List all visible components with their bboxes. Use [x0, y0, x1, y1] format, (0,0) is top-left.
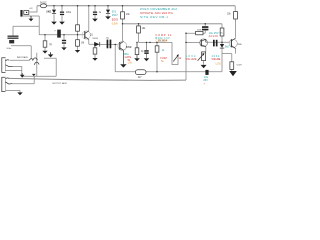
wire bottom long output line — [9, 78, 186, 80]
value labels colored — [112, 11, 230, 86]
input jack J1 body — [2, 58, 6, 73]
svg-text:5k6: 5k6 — [225, 46, 230, 49]
wire y24 — [123, 23, 223, 25]
diode D4 x222 — [220, 44, 224, 48]
junction dots — [44, 5, 222, 72]
ground y58 arrow — [48, 54, 54, 57]
svg-text:9V DC: 9V DC — [40, 3, 47, 5]
resistor R6 x138 — [137, 26, 141, 33]
svg-text:1N914: 1N914 — [92, 38, 98, 40]
pot VR1 volume — [198, 52, 206, 61]
wire output jack ring — [12, 76, 34, 84]
wire Q3 base — [186, 41, 200, 43]
transistor Q2 — [118, 42, 127, 65]
svg-text:1N4001: 1N4001 — [46, 12, 52, 14]
wire Q1 emitter drop — [88, 39, 90, 44]
capacitor C7 x205 — [202, 26, 208, 30]
wire DC jack plus — [30, 6, 38, 12]
svg-text:VOLUME: VOLUME — [211, 58, 220, 61]
ground x146 cap — [144, 58, 150, 61]
capacitor C13 x13 series — [8, 36, 19, 38]
wire Q1 collector riser — [88, 6, 90, 31]
wire Q3 emitter to pot — [205, 47, 207, 53]
wire DC jack minus — [23, 15, 39, 17]
resistor R8 oval on y72 — [135, 70, 146, 75]
resistor R7 x157 — [155, 46, 159, 52]
wire stubs x205 cap — [204, 24, 206, 33]
resistor R10 horizontal y33 — [196, 31, 203, 34]
wire Q4 collector riser — [235, 19, 237, 38]
wire y76 — [22, 58, 56, 76]
capacitor C3 x62 rail — [60, 12, 64, 16]
ground x62 — [59, 22, 65, 25]
resistor R3 x77 lower — [76, 40, 80, 47]
wire stubs x45 — [44, 35, 46, 51]
wire stubs x54 diode — [53, 6, 55, 22]
wire pot bottom — [203, 61, 205, 65]
wire switch vertical — [36, 53, 38, 77]
wire vertical x31 — [30, 46, 32, 59]
diode D3 series y44 — [94, 42, 100, 47]
ground x64 — [61, 47, 66, 50]
wire vertical x186 — [185, 33, 187, 80]
wire output jack sleeve — [6, 90, 21, 92]
ground x108 zener — [105, 16, 111, 19]
ground pot volume — [201, 65, 207, 68]
wire stab pot loop — [172, 42, 178, 64]
wire top +9V rail — [37, 5, 235, 7]
svg-text:INPUT JACK: INPUT JACK — [17, 56, 29, 59]
capacitor C8 x214 series — [213, 40, 218, 47]
wire y26 — [13, 25, 39, 27]
ground output sleeve — [17, 92, 22, 95]
wire y72 bottom bus — [115, 71, 222, 73]
wire vertical x122 collector chain — [122, 6, 125, 42]
wire Q3 collector bus — [206, 41, 229, 43]
DC jack J3 — [20, 10, 28, 17]
capacitor C6 x146 to ground — [144, 42, 148, 58]
wire input jack sleeve — [6, 71, 22, 77]
wire y58 — [44, 57, 56, 59]
svg-text:7R: 7R — [49, 45, 52, 47]
ground symbols — [17, 16, 237, 95]
wire stubs x138 feed resistor — [138, 24, 140, 43]
wire stubs x64 — [63, 35, 65, 48]
capacitor C2 x64 — [62, 40, 66, 44]
stab pot arrow — [173, 54, 179, 61]
ground gate chain — [134, 58, 140, 61]
input jack ring spring — [6, 65, 13, 67]
output jack J2 body — [2, 77, 6, 91]
gate pot chain x137 — [135, 42, 139, 58]
capacitor C5 series x109 — [107, 40, 112, 49]
footswitch contact arcs — [29, 58, 39, 65]
svg-text:SITE REV DB-1: SITE REV DB-1 — [140, 15, 168, 19]
wire y42 second stage — [139, 41, 173, 43]
output jack ring spring — [6, 82, 13, 84]
wire input jack ring — [13, 66, 22, 70]
svg-text:AC128: AC128 — [209, 35, 219, 38]
svg-text:1N47: 1N47 — [112, 14, 119, 17]
capacitor C4 x95 rail — [93, 12, 97, 16]
ground x54 — [51, 22, 57, 25]
wire y46 — [11, 45, 31, 47]
wire Q4 emitter chain — [232, 49, 236, 71]
svg-text:100n: 100n — [6, 48, 12, 50]
junction arrow y76 — [32, 74, 36, 76]
resistor R5 x122 collector — [121, 12, 125, 19]
wire y35 bias — [39, 34, 84, 36]
transistor Q4 — [229, 38, 237, 49]
wire rail right drop — [234, 6, 236, 12]
wire stubs x77 divider — [77, 6, 79, 50]
wire stubs x95 rail cap — [94, 6, 96, 19]
wire stubs x108 zener — [107, 6, 109, 16]
svg-text:1M: 1M — [81, 42, 84, 44]
wire stubs x95 emitter R — [94, 44, 96, 58]
power switch SW1 oval — [40, 4, 46, 8]
svg-text:CW 25V: CW 25V — [156, 39, 168, 42]
wire y44 signal — [89, 43, 118, 45]
ground x77 — [75, 50, 80, 53]
wire vertical x222 feedback — [221, 24, 223, 72]
resistor R11 x235 top — [234, 12, 238, 20]
capacitor C9 blob on y72 — [205, 70, 208, 75]
value labels dark — [6, 3, 242, 85]
svg-text:10u: 10u — [106, 37, 109, 39]
resistor R2 x77 upper — [76, 25, 80, 31]
ground x45 — [42, 51, 47, 54]
wire vertical x13 — [12, 26, 14, 41]
svg-text:2N39: 2N39 — [237, 44, 242, 46]
resistor R4 x95 emitter — [93, 48, 97, 54]
diode D1 x54 — [52, 10, 56, 14]
resistor R9 x222 — [220, 28, 224, 36]
resistor R12 x231 emitter — [230, 62, 234, 70]
ground Q2 emitter — [120, 64, 126, 67]
capacitor C1 series x59 — [57, 30, 61, 38]
junction arrow tip wire — [20, 75, 25, 78]
zener D2 x108 — [106, 10, 110, 14]
wire vertical x115 — [114, 45, 116, 72]
wire stubs x157 — [156, 42, 158, 71]
ground right big — [229, 71, 237, 76]
wire stub x222 to emitter chain — [222, 53, 232, 55]
input jack tip hook — [6, 60, 10, 61]
svg-text:VOLUME: VOLUME — [186, 58, 197, 61]
svg-text:OUTPUT JACK: OUTPUT JACK — [52, 82, 68, 85]
svg-text:BC549: BC549 — [126, 47, 132, 49]
transistor Q3 — [200, 39, 208, 47]
svg-text:LIN: LIN — [128, 61, 132, 64]
ground dc minus — [29, 19, 34, 22]
transistor Q1 — [82, 31, 90, 40]
wire input jack tip — [10, 59, 30, 61]
wire stubs x62 cap — [61, 6, 63, 22]
wire vertical x39 — [38, 16, 40, 35]
title block — [140, 7, 177, 19]
svg-text:100u: 100u — [66, 12, 72, 14]
wire RC link y33 — [186, 32, 205, 34]
svg-text:0.5W: 0.5W — [112, 22, 118, 25]
output jack tip hook — [6, 78, 10, 79]
ground x95 emitter — [92, 58, 97, 61]
ground x95 rail — [92, 19, 98, 22]
capacitor C13 blob — [9, 40, 14, 43]
svg-text:BZX5: BZX5 — [112, 18, 119, 21]
svg-text:LOG: LOG — [216, 63, 221, 66]
svg-text:100R: 100R — [236, 64, 242, 66]
resistor R1 x45 — [43, 41, 47, 47]
